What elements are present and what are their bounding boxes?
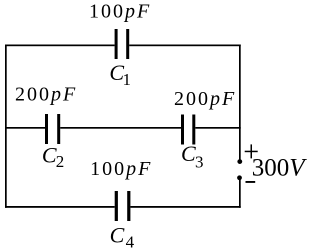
wire: middle rail right segment [195,127,240,129]
wire: left edge [5,45,7,208]
wire: bottom edge right segment [130,206,240,208]
svg-text:4: 4 [126,232,135,250]
wire: right edge lower (- terminal to bottom corner) [239,178,241,208]
svg-text:3: 3 [195,152,204,171]
minus sign [246,181,256,183]
capacitor C4 plates [115,191,118,221]
capacitor C1 plates [115,29,118,59]
wire: right edge upper (top corner to + terminal) [239,45,241,162]
svg-text:300V: 300V [252,154,307,181]
svg-text:C: C [181,141,196,166]
node dot: + terminal [237,159,242,164]
svg-text:200pF: 200pF [174,88,236,110]
svg-text:1: 1 [123,70,132,89]
svg-text:100pF: 100pF [89,1,151,23]
capacitor C2 plates [45,114,48,144]
capacitor C3 plates [181,115,184,145]
node dot: - terminal [237,175,242,180]
wire: bottom edge left segment [5,206,115,208]
wire: top edge right segment [129,45,241,47]
svg-text:200pF: 200pF [15,84,77,106]
svg-text:C: C [42,142,57,167]
plus sign [245,151,258,153]
svg-text:100pF: 100pF [90,158,152,180]
wire: top edge left segment [5,45,115,47]
svg-text:2: 2 [56,152,65,171]
wire: middle rail left segment [5,127,45,129]
svg-text:C: C [110,223,125,248]
wire: middle rail center segment [60,127,181,129]
